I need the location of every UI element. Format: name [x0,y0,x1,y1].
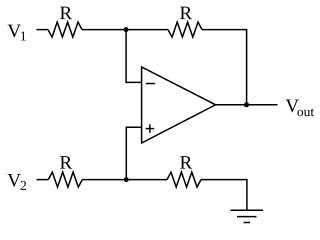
label R4 value R [180,156,192,168]
wire node A down to inverting input [126,30,141,83]
wire node B to R4 [126,179,167,181]
resistor R3 [48,172,82,187]
label R2 value R [180,7,192,19]
label R3 value R [60,156,72,168]
resistor R1 [48,22,82,37]
label V2 [8,174,27,190]
junction output node [244,102,249,107]
label V1 [8,25,26,41]
wire R4 to ground [201,180,247,211]
label Vout [286,100,314,117]
ground [231,210,264,222]
resistor R2 feedback [168,22,202,37]
wire R1 to node A [82,29,126,31]
wire R2 to output node [202,30,247,105]
wire op-amp output [216,104,278,106]
wire node B up to non-inverting input [126,127,141,179]
resistor R4 [167,172,201,187]
label R1 value R [60,7,72,19]
junction node B [124,177,129,182]
op-amp U1 [142,67,216,143]
wire node A to R2 [126,29,168,31]
wire R3 to node B [82,179,126,181]
wire V2 lead [37,179,49,181]
junction node A [124,27,129,32]
wire V1 lead [37,29,49,31]
